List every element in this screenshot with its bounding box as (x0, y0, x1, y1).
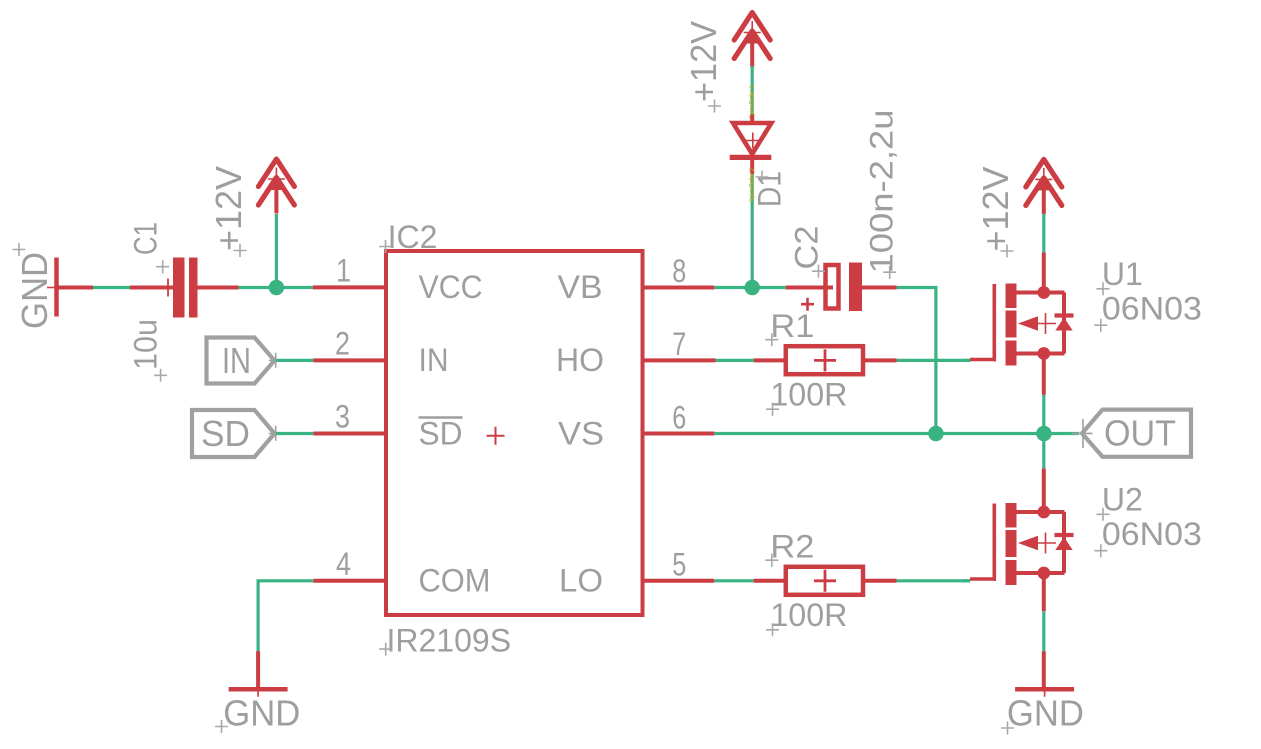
svg-text:SD: SD (419, 415, 463, 451)
svg-text:LO: LO (559, 563, 603, 599)
diode D1 (730, 115, 788, 207)
svg-text:C2: C2 (789, 226, 825, 270)
wire D1 cathode to node B (751, 174, 754, 288)
pin 7 stub (643, 358, 716, 362)
svg-text:OUT: OUT (1104, 413, 1176, 454)
wire C2 to VS corner (897, 288, 936, 434)
ground GND bottom-left (215, 684, 300, 734)
transistor U1 06N03 (970, 256, 1202, 366)
svg-text:IR2109S: IR2109S (387, 623, 512, 659)
svg-text:SpiceOrder 2: SpiceOrder 2 (747, 168, 756, 202)
connector IN (207, 338, 279, 384)
svg-text:U1: U1 (1102, 256, 1143, 292)
pin 8 stub (643, 286, 714, 290)
node VS junction dot (928, 426, 943, 441)
svg-text:GND: GND (223, 693, 300, 734)
wire pin4 to GND corner (258, 581, 313, 651)
wire source net to OUT node (1042, 395, 1045, 434)
resistor R1 100R (754, 308, 897, 416)
svg-text:06N03: 06N03 (1102, 291, 1202, 327)
pin 3 stub (313, 432, 386, 436)
node A junction dot (269, 280, 284, 295)
svg-text:6: 6 (672, 399, 686, 435)
IC2 box (335, 219, 686, 659)
wire IN to pin2 (276, 359, 313, 362)
svg-text:SpiceOrder 1: SpiceOrder 1 (747, 85, 756, 119)
svg-text:+12V: +12V (975, 167, 1016, 252)
svg-text:1: 1 (336, 252, 351, 288)
svg-text:100n-2,2u: 100n-2,2u (864, 110, 900, 274)
+12V supply P2 (683, 13, 770, 113)
wire pin7 to R1 (716, 359, 754, 362)
wire SD to pin3 (276, 432, 313, 435)
svg-text:R1: R1 (770, 308, 814, 344)
node B junction dot (745, 280, 760, 295)
svg-text:10u: 10u (128, 319, 164, 370)
svg-text:VCC: VCC (419, 269, 483, 305)
svg-text:IC2: IC2 (388, 219, 438, 255)
wire C1 to node A (239, 286, 313, 289)
wire U2 drain pin (1042, 469, 1046, 512)
wire net to ground right (1042, 611, 1045, 651)
wire U1 gate green (963, 359, 970, 362)
resistor R2 100R (754, 529, 897, 637)
connector OUT (1072, 410, 1192, 457)
svg-text:06N03: 06N03 (1102, 516, 1202, 552)
+12V supply P1 (208, 159, 294, 288)
ground GND bottom-right (1001, 684, 1084, 735)
svg-text:GND: GND (14, 252, 55, 329)
capacitor C2 100n-2,2u (786, 110, 900, 312)
wire supply to D1 anode (751, 66, 754, 115)
pin 2 stub (313, 358, 386, 362)
capacitor C1 10u (128, 222, 239, 382)
pin 4 stub (313, 579, 386, 583)
wire U2 gate green (963, 579, 970, 582)
wire stem to ground right (1042, 651, 1046, 689)
wire GND to C1 (93, 286, 130, 289)
svg-text:100R: 100R (770, 597, 847, 633)
wire pin5 to R2 (714, 579, 753, 582)
wire pin6 VS to OUT (714, 432, 1079, 435)
svg-text:R2: R2 (770, 529, 814, 565)
svg-text:+12V: +12V (208, 166, 249, 251)
svg-text:2: 2 (335, 325, 350, 361)
wire U2 drain net (1042, 434, 1045, 469)
svg-text:U2: U2 (1102, 482, 1143, 518)
+12V supply P3 (975, 159, 1062, 257)
svg-text:IN: IN (419, 342, 449, 378)
wire R2 to U2 gate (897, 579, 971, 582)
pin 5 stub (643, 579, 714, 583)
node OUT junction dot (1036, 426, 1051, 441)
svg-text:COM: COM (419, 563, 491, 599)
wire U2 source down (1042, 573, 1046, 611)
svg-text:100R: 100R (770, 377, 847, 413)
wire stem to ground (256, 651, 260, 689)
wire U1 source down (1042, 354, 1046, 395)
connector SD (192, 410, 279, 457)
pin 1 stub (313, 285, 386, 289)
svg-text:SD: SD (201, 413, 250, 454)
svg-text:IN: IN (222, 340, 251, 381)
svg-text:8: 8 (672, 253, 686, 289)
pin 6 stub (643, 432, 714, 436)
svg-text:+12V: +12V (683, 21, 724, 102)
svg-text:C1: C1 (128, 222, 164, 255)
svg-text:VS: VS (558, 415, 604, 451)
svg-text:GND: GND (1007, 693, 1084, 734)
wire R1 to U1 gate (897, 359, 971, 362)
svg-text:4: 4 (336, 546, 351, 582)
transistor U2 06N03 (970, 482, 1202, 586)
ground GND left (13, 243, 94, 329)
svg-text:7: 7 (672, 326, 686, 362)
svg-text:HO: HO (556, 342, 604, 378)
wire U1 drain pin up (1042, 252, 1046, 292)
wire pin8 to node B (714, 286, 786, 289)
svg-text:5: 5 (672, 547, 686, 583)
wire net to supply P3 (1042, 214, 1045, 252)
svg-text:VB: VB (558, 269, 603, 305)
svg-text:3: 3 (335, 399, 350, 435)
